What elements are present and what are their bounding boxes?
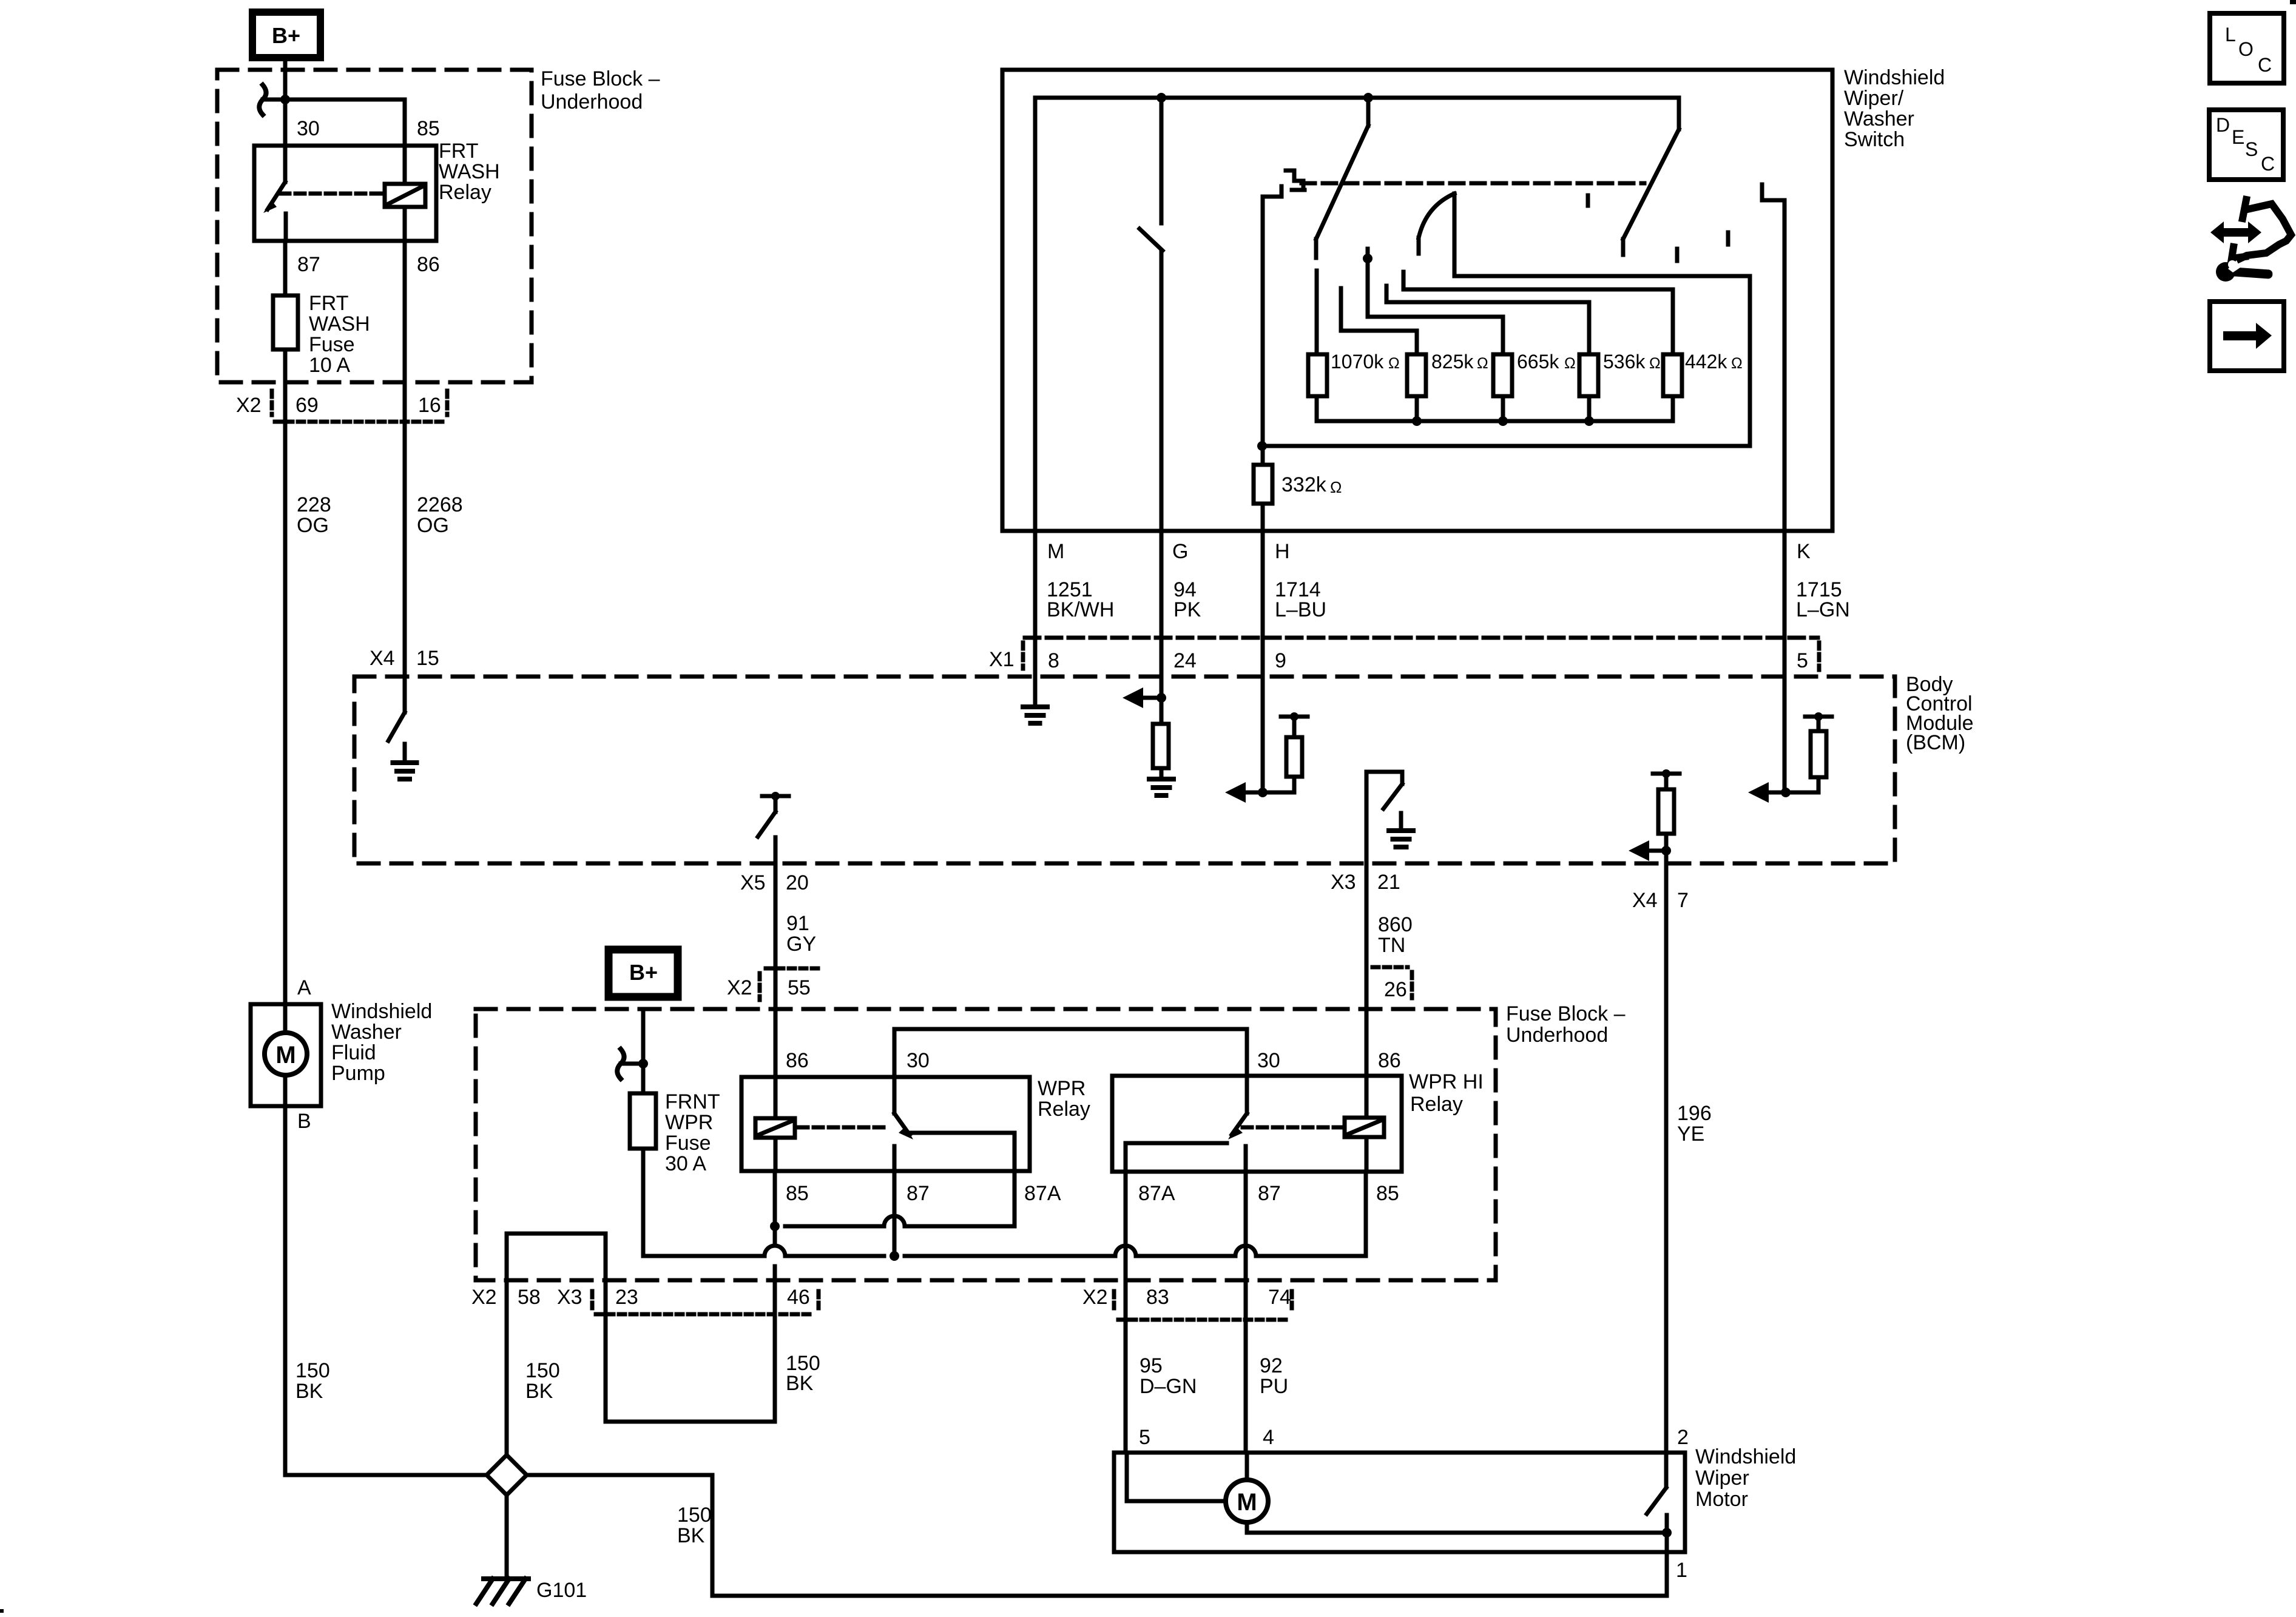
relay FRT WASH Relay box bbox=[254, 146, 436, 241]
wire 46 down bbox=[773, 1266, 777, 1422]
svg-text:1: 1 bbox=[1676, 1559, 1687, 1582]
WPR 87 stub bbox=[893, 1146, 897, 1171]
svg-text:Wiper/: Wiper/ bbox=[1844, 87, 1904, 110]
wire 1070k top bbox=[1315, 271, 1319, 354]
resistor 665k bbox=[1493, 354, 1512, 396]
switch arm G (washer switch) bbox=[1140, 229, 1163, 251]
contact tick b bbox=[1726, 232, 1730, 245]
svg-text:85: 85 bbox=[786, 1182, 809, 1205]
svg-text:O: O bbox=[2238, 38, 2254, 60]
svg-text:X2: X2 bbox=[1082, 1286, 1108, 1309]
icon box LOC bbox=[2210, 13, 2284, 83]
svg-text:WASH: WASH bbox=[439, 160, 500, 183]
fuse block 1 dashed box (Fuse Block - Underhood) bbox=[217, 70, 532, 382]
WPR coil (86-85) bbox=[755, 1118, 795, 1138]
svg-text:OG: OG bbox=[417, 514, 449, 537]
svg-text:Fuse Block –: Fuse Block – bbox=[541, 67, 660, 90]
WPR HI 87 stub bbox=[1244, 1146, 1248, 1172]
node dot K input bbox=[1781, 788, 1791, 797]
wire WPR 87 down bbox=[893, 1171, 897, 1256]
svg-text:30: 30 bbox=[907, 1049, 930, 1072]
delay contact row wires bbox=[1402, 272, 1406, 289]
ground (BCM internal X3) bbox=[1399, 813, 1403, 829]
svg-text:30: 30 bbox=[297, 117, 320, 140]
arrow G input bbox=[1143, 696, 1161, 700]
svg-text:X1: X1 bbox=[989, 648, 1015, 671]
windshield wiper/washer switch box bbox=[1002, 70, 1832, 531]
wire A to M bbox=[283, 1004, 288, 1033]
wire WPR 85 down bbox=[773, 1171, 777, 1226]
svg-text:30: 30 bbox=[1257, 1049, 1280, 1072]
wire fuse to feed bus bbox=[641, 1149, 646, 1256]
relay WPR Relay box bbox=[741, 1077, 1030, 1171]
svg-text:860: 860 bbox=[1378, 913, 1413, 936]
svg-text:Relay: Relay bbox=[1410, 1093, 1463, 1116]
WPR switch arm bbox=[894, 1113, 910, 1135]
svg-text:X2: X2 bbox=[727, 976, 752, 999]
svg-text:30 A: 30 A bbox=[665, 1152, 706, 1175]
wire WPR 87A to 85 node bbox=[1013, 1171, 1017, 1226]
splice diamond S-node bbox=[487, 1455, 527, 1495]
WPR 87A link bbox=[911, 1131, 1015, 1135]
wire 86 into coil bbox=[774, 1077, 778, 1118]
svg-text:WPR HI: WPR HI bbox=[1409, 1070, 1484, 1093]
svg-text:87A: 87A bbox=[1024, 1182, 1061, 1205]
connector X1 row bbox=[1025, 636, 1818, 640]
wire motor to park node bbox=[1245, 1522, 1249, 1533]
svg-text:69: 69 bbox=[295, 394, 319, 417]
svg-text:Fuse: Fuse bbox=[309, 333, 355, 356]
svg-text:L–GN: L–GN bbox=[1796, 598, 1850, 621]
svg-text:FRNT: FRNT bbox=[665, 1090, 720, 1113]
hop feed over 83 wire bbox=[1115, 1246, 1136, 1256]
switch feed bus wire bbox=[1035, 96, 1679, 100]
svg-text:BK: BK bbox=[525, 1380, 553, 1403]
wire H upper bbox=[1261, 197, 1265, 465]
svg-text:X2: X2 bbox=[471, 1286, 497, 1309]
svg-text:C: C bbox=[2261, 153, 2275, 175]
WPR HI switch arm bbox=[1232, 1113, 1247, 1135]
svg-text:Relay: Relay bbox=[1038, 1098, 1090, 1121]
node dots ladder bbox=[1412, 416, 1422, 426]
resistor BCM H pullup bbox=[1286, 737, 1302, 777]
wire splice to ground bbox=[505, 1495, 509, 1577]
node dot G input bbox=[1156, 693, 1166, 703]
fuse FRT WASH Fuse 10A bbox=[273, 295, 298, 349]
node dot park bbox=[1662, 1528, 1672, 1538]
svg-text:9: 9 bbox=[1275, 649, 1286, 672]
svg-text:GY: GY bbox=[786, 933, 816, 956]
wire coil to 85 2 bbox=[1365, 1137, 1369, 1172]
svg-text:Ω: Ω bbox=[1477, 355, 1488, 372]
svg-text:Washer: Washer bbox=[1844, 107, 1914, 130]
wire park to pin1 bbox=[1665, 1533, 1669, 1552]
svg-text:332k: 332k bbox=[1281, 473, 1327, 496]
park switch arm (motor) bbox=[1664, 1453, 1669, 1487]
svg-text:K: K bbox=[1797, 540, 1811, 563]
svg-text:10 A: 10 A bbox=[309, 354, 350, 377]
wire G lower bbox=[1160, 251, 1164, 531]
svg-text:Underhood: Underhood bbox=[1506, 1024, 1608, 1047]
relay coil (85-86) bbox=[385, 184, 425, 207]
svg-text:Ω: Ω bbox=[1564, 355, 1576, 372]
wire B+2 to fuse bbox=[641, 1009, 646, 1093]
svg-text:58: 58 bbox=[518, 1286, 541, 1309]
pin M wire bbox=[1033, 531, 1038, 677]
wiper arm 1 (delay select) bbox=[1366, 98, 1371, 126]
svg-text:2268: 2268 bbox=[417, 493, 463, 516]
svg-text:C: C bbox=[2258, 54, 2272, 76]
svg-text:Wiper: Wiper bbox=[1695, 1467, 1749, 1490]
step contact left (H feed) bbox=[1263, 186, 1281, 197]
svg-text:YE: YE bbox=[1677, 1122, 1704, 1146]
icon box DESC bbox=[2209, 110, 2283, 180]
node dot H input bbox=[1258, 788, 1268, 797]
svg-text:8: 8 bbox=[1048, 649, 1059, 672]
svg-text:150: 150 bbox=[295, 1359, 330, 1382]
wire 150 BK pump to G101 splice bbox=[283, 1106, 288, 1475]
svg-text:21: 21 bbox=[1377, 871, 1400, 894]
svg-text:X3: X3 bbox=[1331, 871, 1356, 894]
svg-text:B+: B+ bbox=[629, 960, 658, 985]
wire X5-20 out bbox=[774, 837, 778, 1077]
svg-text:A: A bbox=[297, 976, 311, 999]
svg-text:B: B bbox=[297, 1110, 311, 1133]
resistor 332k bbox=[1254, 465, 1272, 504]
svg-text:Switch: Switch bbox=[1844, 128, 1905, 151]
svg-text:442k: 442k bbox=[1685, 351, 1727, 373]
wire pin4 to motor bbox=[1245, 1453, 1249, 1480]
svg-text:Relay: Relay bbox=[439, 181, 491, 204]
WPR HI 87A link bbox=[1126, 1141, 1227, 1146]
svg-text:74: 74 bbox=[1268, 1286, 1291, 1309]
wire ground loop 46-23 bbox=[606, 1420, 775, 1424]
svg-text:5: 5 bbox=[1797, 649, 1808, 672]
svg-text:FRT: FRT bbox=[309, 292, 348, 315]
park contact stub bbox=[1665, 1515, 1669, 1533]
switch X5 low-side driver bbox=[774, 796, 778, 812]
svg-text:2: 2 bbox=[1677, 1426, 1689, 1449]
relay switch arm (30-87) bbox=[268, 182, 285, 209]
wire ladder to H node bbox=[1262, 444, 1750, 448]
svg-text:Windshield: Windshield bbox=[331, 1000, 432, 1023]
svg-text:B+: B+ bbox=[272, 23, 300, 48]
hop 87A over 87 bbox=[884, 1216, 905, 1226]
svg-text:55: 55 bbox=[788, 976, 811, 999]
node dot feed/87 bbox=[890, 1251, 899, 1261]
ground (BCM internal 1) bbox=[403, 744, 407, 761]
svg-text:Fuse Block –: Fuse Block – bbox=[1506, 1002, 1626, 1025]
svg-text:15: 15 bbox=[416, 647, 439, 670]
body control module dashed box bbox=[354, 677, 1895, 863]
svg-text:86: 86 bbox=[417, 253, 440, 276]
svg-text:5: 5 bbox=[1139, 1426, 1150, 1449]
svg-text:20: 20 bbox=[786, 871, 809, 894]
svg-text:87: 87 bbox=[1258, 1182, 1281, 1205]
icon car with arrow and wrench bbox=[2210, 221, 2261, 243]
ground G101 chassis symbol bbox=[484, 1576, 528, 1581]
windshield wiper motor box bbox=[1114, 1453, 1685, 1552]
wire H lower bbox=[1261, 504, 1265, 531]
pin G wire bbox=[1160, 531, 1164, 698]
svg-text:Windshield: Windshield bbox=[1695, 1445, 1796, 1468]
wire coil to 85 bbox=[774, 1138, 778, 1171]
svg-text:X4: X4 bbox=[1632, 889, 1658, 912]
svg-text:G101: G101 bbox=[536, 1579, 587, 1602]
contact tick a bbox=[1586, 195, 1590, 206]
wire pin 87 to fuse bbox=[283, 241, 288, 295]
resistor 825k bbox=[1407, 354, 1426, 396]
wire B+ to relay pin 30 bbox=[283, 58, 288, 182]
svg-text:PK: PK bbox=[1173, 598, 1201, 621]
svg-text:665k: 665k bbox=[1517, 351, 1559, 373]
svg-text:Ω: Ω bbox=[1388, 355, 1400, 372]
resistor 442k bbox=[1663, 354, 1682, 396]
svg-text:Windshield: Windshield bbox=[1844, 66, 1945, 89]
svg-text:G: G bbox=[1172, 540, 1188, 563]
wire pin5 to motor bbox=[1125, 1453, 1129, 1501]
fuse block 2 dashed box bbox=[476, 1009, 1496, 1280]
svg-text:150: 150 bbox=[677, 1504, 712, 1527]
svg-text:X5: X5 bbox=[740, 871, 766, 894]
pin H wire bbox=[1261, 531, 1265, 792]
wiper arc (delay positions) bbox=[1419, 194, 1454, 238]
svg-text:S: S bbox=[2245, 138, 2258, 160]
svg-text:Underhood: Underhood bbox=[541, 90, 643, 113]
svg-text:Fluid: Fluid bbox=[331, 1041, 376, 1064]
svg-text:BK: BK bbox=[786, 1372, 814, 1395]
svg-text:Fuse: Fuse bbox=[665, 1132, 711, 1155]
svg-text:86: 86 bbox=[786, 1049, 809, 1072]
svg-text:85: 85 bbox=[417, 117, 440, 140]
relay dashed actuate link bbox=[280, 192, 382, 196]
wire 2268 OG pin86 to BCM X4-15 bbox=[403, 241, 407, 712]
wiper arm 2 (mode select) bbox=[1677, 98, 1681, 129]
fuse FRNT WPR Fuse 30A bbox=[630, 1093, 656, 1149]
svg-text:X3: X3 bbox=[557, 1286, 582, 1309]
svg-text:86: 86 bbox=[1378, 1049, 1401, 1072]
contact tick c bbox=[1675, 249, 1680, 261]
motor M circle (wiper) bbox=[1226, 1480, 1268, 1522]
connector hook on B+2 feed bbox=[621, 1062, 641, 1066]
resistor BCM K pullup bbox=[1811, 731, 1826, 777]
node dot X4 out bbox=[1661, 846, 1671, 856]
svg-text:87: 87 bbox=[907, 1182, 930, 1205]
wire 860 TN bbox=[1365, 863, 1369, 1077]
arrow H input bbox=[1246, 791, 1263, 795]
svg-text:BK: BK bbox=[677, 1524, 705, 1547]
WPR dashed actuate link bbox=[799, 1126, 886, 1130]
svg-text:150: 150 bbox=[525, 1359, 560, 1382]
svg-text:23: 23 bbox=[615, 1286, 638, 1309]
wire X4-7 out bbox=[1664, 851, 1669, 1453]
wire branch to relay pin 85 bbox=[285, 98, 405, 102]
relay WPR HI Relay box bbox=[1112, 1076, 1402, 1172]
wire feed to WPR HI 85 bbox=[1364, 1172, 1368, 1256]
svg-text:87: 87 bbox=[297, 253, 320, 276]
svg-text:WPR: WPR bbox=[665, 1111, 713, 1134]
svg-text:85: 85 bbox=[1376, 1182, 1399, 1205]
pin K wire bbox=[1783, 531, 1787, 792]
svg-text:X2: X2 bbox=[236, 394, 262, 417]
svg-text:95: 95 bbox=[1140, 1354, 1163, 1377]
connector hook on B+ feed bbox=[263, 98, 283, 102]
wire 228 OG to washer pump bbox=[283, 422, 288, 1004]
terminal T-bar H pullup bbox=[1281, 715, 1308, 719]
wire bus to M terminal bbox=[1033, 98, 1038, 531]
svg-text:X4: X4 bbox=[370, 647, 395, 670]
WPR HI coil (86-85) bbox=[1345, 1118, 1384, 1137]
step contact right (K feed) bbox=[1762, 184, 1784, 200]
svg-text:Ω: Ω bbox=[1649, 355, 1661, 372]
power symbol B+ (battery feed, fuse block underhood) bbox=[252, 12, 320, 58]
resistor 536k bbox=[1579, 354, 1598, 396]
svg-text:BK/WH: BK/WH bbox=[1047, 598, 1114, 621]
junction dot B+ branch bbox=[280, 95, 290, 104]
resistor BCM X4 pullup bbox=[1658, 789, 1674, 834]
ground (BCM internal M) bbox=[1033, 677, 1038, 705]
WPR HI dashed actuate link bbox=[1243, 1126, 1342, 1130]
svg-text:83: 83 bbox=[1146, 1286, 1169, 1309]
wire K inside switch bbox=[1783, 200, 1787, 531]
svg-text:FRT: FRT bbox=[439, 140, 478, 163]
junction dot B+2 bbox=[638, 1059, 648, 1068]
svg-text:L–BU: L–BU bbox=[1275, 598, 1326, 621]
dashed gang link (switch) bbox=[1302, 181, 1644, 186]
wire 92 PU bbox=[1244, 1172, 1248, 1453]
node dot G bbox=[1156, 93, 1166, 103]
svg-text:7: 7 bbox=[1677, 889, 1689, 912]
wire 95 D-GN bbox=[1124, 1172, 1128, 1453]
power symbol B+ (2) bbox=[609, 950, 678, 997]
svg-text:91: 91 bbox=[786, 912, 809, 935]
wire ground loop 23-58 bbox=[507, 1232, 606, 1236]
relay 87 contact stub bbox=[284, 214, 288, 241]
resistor 1070k bbox=[1308, 354, 1327, 396]
wire G upper bbox=[1160, 98, 1164, 223]
svg-text:M: M bbox=[1047, 540, 1064, 563]
motor M circle (washer pump) bbox=[265, 1033, 307, 1075]
wire arc wiper to H link bbox=[1453, 194, 1457, 276]
svg-text:OG: OG bbox=[297, 514, 329, 537]
svg-text:26: 26 bbox=[1384, 978, 1407, 1001]
svg-text:4: 4 bbox=[1263, 1426, 1274, 1449]
svg-text:Ω: Ω bbox=[1731, 355, 1743, 372]
resistor ladder bottom bus bbox=[1315, 396, 1319, 421]
svg-text:Washer: Washer bbox=[331, 1021, 402, 1044]
node dot H bbox=[1257, 441, 1267, 451]
svg-text:92: 92 bbox=[1260, 1354, 1283, 1377]
svg-text:PU: PU bbox=[1260, 1375, 1288, 1398]
svg-text:46: 46 bbox=[787, 1286, 810, 1309]
resistor BCM G pulldown bbox=[1153, 724, 1169, 768]
svg-text:16: 16 bbox=[418, 394, 441, 417]
svg-text:536k: 536k bbox=[1603, 351, 1646, 373]
relay 30 feed bus bbox=[894, 1027, 1247, 1031]
node dot 85/87A bbox=[770, 1221, 780, 1231]
svg-text:1070k: 1070k bbox=[1331, 351, 1384, 373]
svg-text:Pump: Pump bbox=[331, 1062, 385, 1085]
page corner mark bbox=[2290, 0, 2296, 4]
arrow K input bbox=[1769, 791, 1786, 795]
svg-text:87A: 87A bbox=[1138, 1182, 1175, 1205]
connector X2-55 row bbox=[766, 967, 820, 971]
hop feed over 74 wire bbox=[1235, 1246, 1256, 1256]
svg-text:H: H bbox=[1275, 540, 1290, 563]
node dot wiper 1 bbox=[1363, 93, 1373, 103]
svg-text:WASH: WASH bbox=[309, 312, 370, 336]
wire X4-15 switch to ground bbox=[403, 677, 407, 712]
terminal T-bar X4 pullup bbox=[1653, 772, 1680, 776]
svg-text:228: 228 bbox=[297, 493, 331, 516]
svg-text:WPR: WPR bbox=[1038, 1077, 1086, 1100]
svg-text:825k: 825k bbox=[1431, 351, 1474, 373]
wire fuse to X2-69 bbox=[283, 349, 288, 422]
svg-text:M: M bbox=[275, 1042, 295, 1068]
wire 85 into coil bbox=[403, 146, 407, 184]
svg-text:D: D bbox=[2216, 114, 2230, 136]
svg-text:24: 24 bbox=[1173, 649, 1197, 672]
svg-text:E: E bbox=[2232, 126, 2244, 148]
wire feed bus bottom bbox=[643, 1254, 765, 1258]
wire pin1 ground 150 BK bbox=[1665, 1551, 1669, 1596]
wire splice to motor branch bbox=[527, 1473, 712, 1477]
wire M to B bbox=[283, 1075, 288, 1106]
connector X2-26 row bbox=[1373, 965, 1408, 970]
switch X3 driver to ground bbox=[1365, 772, 1369, 863]
svg-text:Motor: Motor bbox=[1695, 1488, 1748, 1511]
svg-text:BK: BK bbox=[295, 1380, 323, 1403]
windshield washer fluid pump box bbox=[251, 1004, 321, 1106]
wire coil to pin 86 bbox=[403, 207, 407, 241]
svg-text:TN: TN bbox=[1378, 934, 1405, 957]
terminal T-bar K pullup bbox=[1805, 715, 1832, 719]
svg-text:196: 196 bbox=[1677, 1102, 1712, 1125]
wire 86 into coil 2 bbox=[1365, 1077, 1369, 1118]
node dot delay wiper bbox=[1363, 254, 1373, 263]
icon box arrow (next) bbox=[2210, 302, 2284, 371]
svg-text:Ω: Ω bbox=[1330, 478, 1342, 496]
svg-text:D–GN: D–GN bbox=[1140, 1375, 1197, 1398]
terminal T-bar X5 driver bbox=[762, 794, 789, 798]
ground (BCM internal G) bbox=[1149, 777, 1173, 781]
svg-text:L: L bbox=[2225, 24, 2236, 46]
svg-text:M: M bbox=[1237, 1489, 1257, 1516]
svg-text:(BCM): (BCM) bbox=[1906, 731, 1965, 754]
arrow X4 input bbox=[1649, 849, 1666, 853]
hop feed over 85 wire bbox=[765, 1246, 785, 1256]
